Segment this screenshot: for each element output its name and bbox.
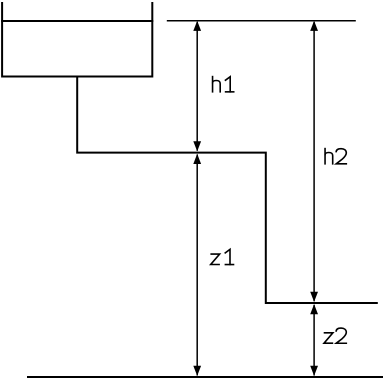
label z1: [210, 249, 234, 265]
pipe: [77, 76, 378, 304]
water level line: [1, 20, 153, 22]
label h2: [325, 148, 347, 165]
dimension line z1: [193, 154, 201, 376]
label z2: [324, 328, 347, 343]
dimension line z2: [310, 304, 318, 376]
label h1: [213, 76, 235, 93]
dimension line h1: [193, 21, 201, 152]
top reference line: [167, 20, 356, 22]
tank walls and bottom: [2, 2, 152, 77]
dimension line h2: [310, 21, 318, 302]
ground line: [27, 376, 383, 378]
